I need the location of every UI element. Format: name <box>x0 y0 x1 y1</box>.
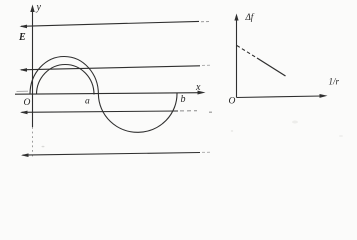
svg-text:E: E <box>18 32 26 43</box>
field line 1 fade dash <box>201 21 209 23</box>
field line 4 fade dash <box>202 151 211 153</box>
field line 2 arrowhead <box>20 68 28 72</box>
svg-text:x: x <box>195 82 201 93</box>
y-axis <box>32 8 34 127</box>
sloped line solid part <box>257 58 286 76</box>
field line 3 fade dash <box>180 110 197 112</box>
wave outer: crest then trough <box>30 56 177 132</box>
svg-text:O: O <box>24 98 31 108</box>
field line 4 arrowhead <box>21 153 29 157</box>
field line 1 arrowhead <box>20 25 28 29</box>
field line 3 arrowhead <box>20 111 28 115</box>
svg-text:y: y <box>36 2 42 13</box>
faint scan smudges <box>292 121 298 124</box>
svg-text:b: b <box>181 94 186 105</box>
y-axis arrowhead <box>30 5 34 13</box>
svg-text:O: O <box>229 97 236 107</box>
x-axis arrowhead <box>198 91 206 95</box>
right graph: vertical axis <box>236 16 238 98</box>
inner arc <box>37 65 95 95</box>
x-axis <box>15 93 200 95</box>
svg-text:1/r: 1/r <box>329 77 340 87</box>
field line 3 <box>22 111 179 112</box>
field line 2 <box>21 66 200 70</box>
sloped line dashed part <box>237 46 257 59</box>
field line 4 <box>23 153 201 156</box>
right horizontal arrowhead <box>320 94 328 98</box>
right vertical arrowhead <box>234 14 238 21</box>
ghost mark near origin <box>17 90 29 92</box>
y-axis lower faded part <box>32 127 34 158</box>
field line 1 <box>21 21 199 26</box>
stray dot <box>209 112 212 113</box>
field line 2 fade dash <box>202 64 210 66</box>
svg-text:a: a <box>85 97 90 107</box>
svg-text:Δf: Δf <box>245 12 255 22</box>
right graph: horizontal axis <box>237 96 323 98</box>
